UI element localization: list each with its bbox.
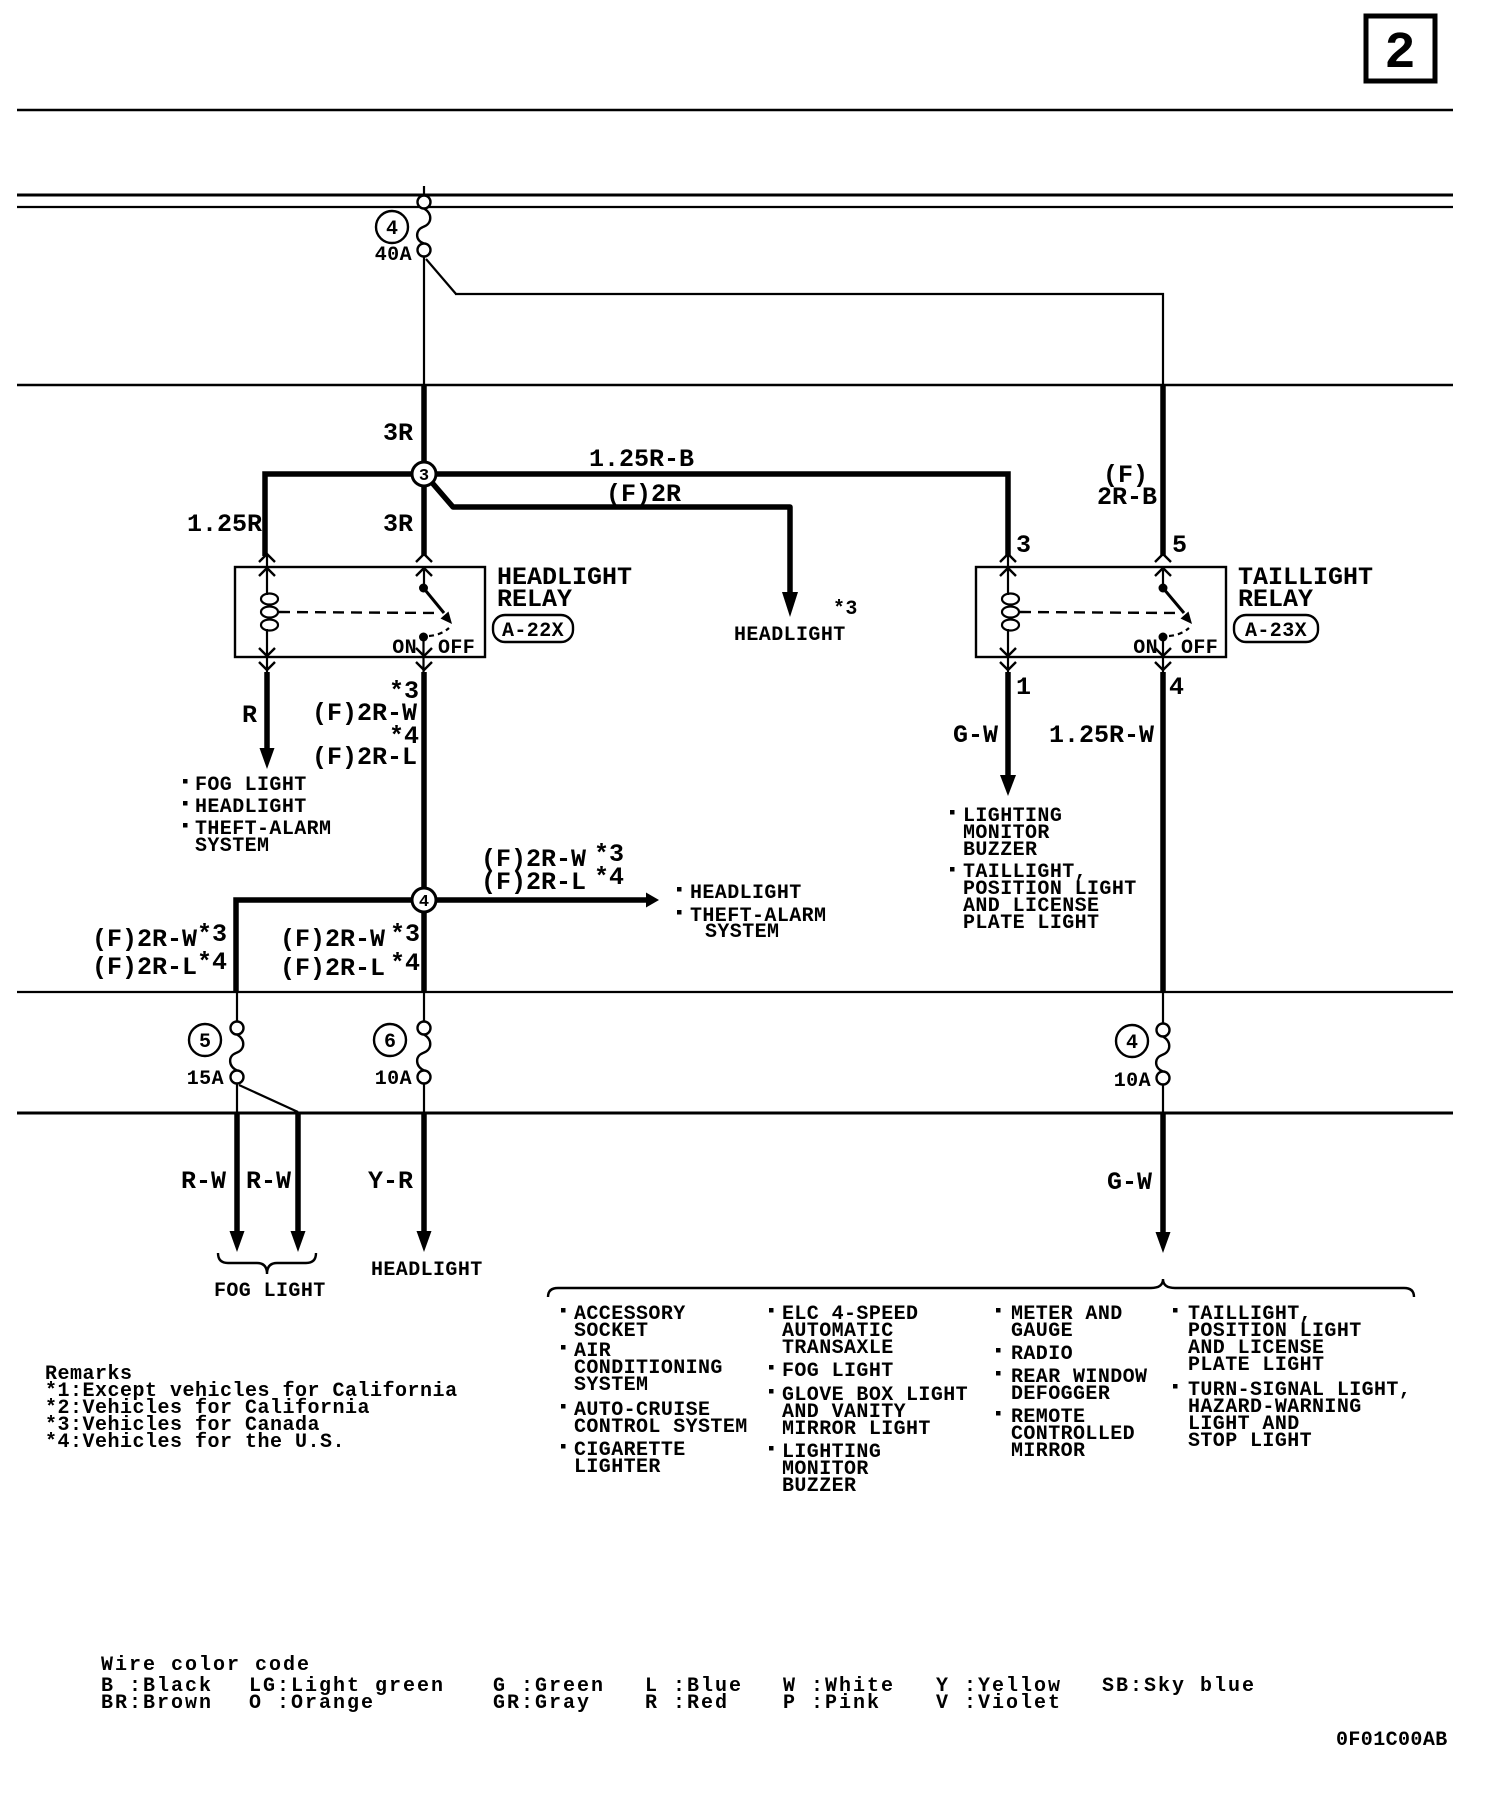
svg-text:OFF: OFF bbox=[438, 637, 475, 660]
svg-text:(F)2R-W: (F)2R-W bbox=[280, 925, 385, 954]
svg-text:HEADLIGHT: HEADLIGHT bbox=[734, 624, 846, 647]
label (F)2R-L *4 bbox=[312, 722, 419, 772]
fog light brace bbox=[218, 1253, 316, 1274]
junction 4 bbox=[412, 888, 436, 912]
svg-text:*3: *3 bbox=[833, 598, 858, 621]
svg-text:PLATE LIGHT: PLATE LIGHT bbox=[1188, 1354, 1324, 1377]
svg-text:(F)2R-W: (F)2R-W bbox=[92, 925, 197, 954]
svg-text:STOP LIGHT: STOP LIGHT bbox=[1188, 1430, 1312, 1453]
svg-text:BR:Brown: BR:Brown bbox=[101, 1692, 213, 1715]
svg-text:LIGHTER: LIGHTER bbox=[574, 1456, 661, 1479]
taillight relay switch pin chevrons bottom bbox=[1155, 648, 1171, 670]
svg-text:2: 2 bbox=[1384, 24, 1415, 83]
wire stub above bus bbox=[423, 186, 425, 196]
wire (F)2R-B bbox=[1160, 385, 1166, 556]
headlight relay switch bbox=[419, 570, 452, 676]
svg-text:1.25R-W: 1.25R-W bbox=[1049, 721, 1154, 750]
wire horizontal right branch bbox=[455, 293, 1164, 295]
big brace bbox=[548, 1279, 1414, 1297]
svg-text:(F)2R-L: (F)2R-L bbox=[280, 954, 385, 983]
headlight relay coil pin chevrons bottom bbox=[259, 648, 275, 670]
svg-text:SYSTEM: SYSTEM bbox=[195, 835, 269, 858]
svg-text:1.25R: 1.25R bbox=[187, 510, 262, 539]
remarks block bbox=[45, 1363, 458, 1454]
bus line mid bbox=[17, 384, 1453, 386]
svg-text:*4:Vehicles for the U.S.: *4:Vehicles for the U.S. bbox=[45, 1431, 345, 1454]
svg-text:40A: 40A bbox=[375, 244, 412, 267]
load list column 3 bbox=[996, 1303, 1147, 1463]
svg-text:10A: 10A bbox=[375, 1068, 412, 1091]
svg-text:R-W: R-W bbox=[181, 1167, 226, 1196]
svg-text:G-W: G-W bbox=[953, 721, 998, 750]
wire (F)2R-W/L down to junction 4 bbox=[421, 672, 427, 889]
svg-text:3R: 3R bbox=[383, 510, 413, 539]
svg-text:5: 5 bbox=[1172, 531, 1187, 560]
svg-text:BUZZER: BUZZER bbox=[782, 1475, 856, 1498]
svg-text:MIRROR LIGHT: MIRROR LIGHT bbox=[782, 1418, 931, 1441]
taillight relay coil pin chevrons top bbox=[1000, 554, 1016, 576]
svg-text:SB:Sky blue: SB:Sky blue bbox=[1102, 1675, 1256, 1698]
wire from fuse down bbox=[423, 257, 425, 385]
label (F)2R-L*4 left bbox=[92, 948, 227, 982]
fuse F4 40A bbox=[375, 196, 431, 268]
svg-text:R-W: R-W bbox=[246, 1167, 291, 1196]
svg-text:*3: *3 bbox=[390, 920, 420, 949]
taillight relay dashed coil-armature link bbox=[1020, 612, 1178, 613]
svg-text:3: 3 bbox=[419, 467, 429, 486]
svg-text:V :Violet: V :Violet bbox=[936, 1692, 1062, 1715]
headlight relay dashed coil-armature link bbox=[279, 612, 438, 613]
svg-text:*3: *3 bbox=[389, 677, 419, 706]
svg-text:2R-B: 2R-B bbox=[1097, 483, 1157, 512]
wire G-W arrow bottom bbox=[1156, 1113, 1171, 1253]
svg-text:HEADLIGHT: HEADLIGHT bbox=[195, 796, 307, 819]
svg-text:RELAY: RELAY bbox=[497, 585, 572, 614]
svg-text:P :Pink: P :Pink bbox=[783, 1692, 881, 1715]
headlight relay coil pin chevrons top bbox=[259, 554, 275, 576]
svg-text:*3: *3 bbox=[197, 920, 227, 949]
label (F)2R-W*3 center bbox=[280, 920, 420, 954]
svg-text:SYSTEM: SYSTEM bbox=[574, 1374, 648, 1397]
svg-text:A-22X: A-22X bbox=[502, 620, 564, 643]
svg-text:(F)2R-L: (F)2R-L bbox=[481, 868, 586, 897]
svg-text:RADIO: RADIO bbox=[1011, 1343, 1073, 1366]
wire 3R bbox=[421, 385, 427, 464]
svg-text:Y-R: Y-R bbox=[368, 1167, 413, 1196]
svg-text:4: 4 bbox=[386, 218, 398, 241]
wire 1.25R-B bbox=[435, 474, 1008, 556]
svg-text:PLATE LIGHT: PLATE LIGHT bbox=[963, 912, 1099, 935]
wire 1.25R bbox=[265, 474, 413, 556]
page number box 2 bbox=[1366, 16, 1435, 83]
svg-text:DEFOGGER: DEFOGGER bbox=[1011, 1383, 1110, 1406]
load list column 1 bbox=[561, 1303, 748, 1479]
headlight / theft-alarm list right bbox=[677, 882, 826, 944]
svg-text:1.25R-B: 1.25R-B bbox=[589, 445, 694, 474]
bus line fuse-row bottom bbox=[17, 1112, 1453, 1115]
svg-text:4: 4 bbox=[1169, 673, 1184, 702]
lighting monitor buzzer / taillight list bbox=[950, 805, 1137, 935]
svg-text:15A: 15A bbox=[187, 1068, 224, 1091]
wire Y-R arrow bbox=[417, 1113, 432, 1252]
taillight relay coil bbox=[1002, 556, 1019, 676]
svg-text:MIRROR: MIRROR bbox=[1011, 1440, 1085, 1463]
svg-text:1: 1 bbox=[1016, 673, 1031, 702]
taillight relay box bbox=[976, 567, 1226, 657]
taillight relay switch bbox=[1159, 570, 1193, 676]
fog light / headlight / theft-alarm list bbox=[183, 774, 331, 858]
svg-text:(F)2R-L: (F)2R-L bbox=[92, 953, 197, 982]
svg-text:0F01C00AB: 0F01C00AB bbox=[1336, 1729, 1448, 1752]
svg-text:G-W: G-W bbox=[1107, 1168, 1152, 1197]
svg-text:GR:Gray: GR:Gray bbox=[493, 1692, 591, 1715]
headlight relay box bbox=[235, 567, 485, 657]
taillight relay switch pin chevrons top bbox=[1155, 554, 1171, 576]
fuse F5 15A bbox=[187, 992, 298, 1113]
svg-text:BUZZER: BUZZER bbox=[963, 839, 1037, 862]
svg-text:FOG LIGHT: FOG LIGHT bbox=[195, 774, 307, 797]
svg-text:FOG LIGHT: FOG LIGHT bbox=[214, 1280, 326, 1303]
wire R-W arrow 2 bbox=[291, 1113, 306, 1252]
svg-text:R: R bbox=[242, 701, 257, 730]
wire R-W arrow 1 bbox=[230, 1113, 245, 1252]
svg-text:CONTROL SYSTEM: CONTROL SYSTEM bbox=[574, 1416, 748, 1439]
junction 4 down wire bbox=[421, 911, 427, 992]
wire color code bbox=[101, 1654, 1256, 1715]
load list column 4 bbox=[1173, 1303, 1411, 1453]
svg-text:3R: 3R bbox=[383, 419, 413, 448]
svg-text:6: 6 bbox=[384, 1031, 396, 1054]
svg-text:GAUGE: GAUGE bbox=[1011, 1320, 1073, 1343]
wire diagonal to right branch bbox=[426, 259, 456, 294]
svg-text:TRANSAXLE: TRANSAXLE bbox=[782, 1337, 894, 1360]
wire 1.25R-W pin 4 down bbox=[1160, 672, 1166, 992]
svg-text:HEADLIGHT: HEADLIGHT bbox=[690, 882, 802, 905]
wire 3R down from junction bbox=[421, 485, 427, 556]
svg-text:SYSTEM: SYSTEM bbox=[705, 921, 779, 944]
bus line fuse-row top bbox=[17, 991, 1453, 993]
svg-text:ON: ON bbox=[1133, 637, 1158, 660]
bus line top bbox=[17, 109, 1453, 111]
headlight relay connector badge A-22X bbox=[493, 615, 573, 643]
label (F)2R-W *3 bbox=[312, 677, 419, 728]
svg-text:ON: ON bbox=[392, 637, 417, 660]
bus line double upper bbox=[17, 194, 1453, 197]
svg-text:R :Red: R :Red bbox=[645, 1692, 729, 1715]
svg-text:O :Orange: O :Orange bbox=[249, 1692, 375, 1715]
svg-text:5: 5 bbox=[199, 1031, 211, 1054]
fuse F4 10A right bbox=[1114, 992, 1170, 1113]
svg-text:FOG LIGHT: FOG LIGHT bbox=[782, 1360, 894, 1383]
wire right branch down bbox=[1162, 293, 1164, 385]
svg-text:*4: *4 bbox=[594, 863, 624, 892]
svg-text:A-23X: A-23X bbox=[1245, 620, 1307, 643]
svg-text:4: 4 bbox=[1126, 1032, 1138, 1055]
label (F)2R-L*4 center bbox=[280, 949, 420, 983]
svg-text:(F)2R: (F)2R bbox=[606, 480, 681, 509]
svg-text:HEADLIGHT: HEADLIGHT bbox=[371, 1259, 483, 1282]
label (F)2R-W*3 left bbox=[92, 920, 227, 954]
svg-text:RELAY: RELAY bbox=[1238, 585, 1313, 614]
fuse F6 10A bbox=[374, 992, 431, 1113]
svg-text:10A: 10A bbox=[1114, 1070, 1151, 1093]
bus line double lower bbox=[17, 206, 1453, 208]
svg-text:OFF: OFF bbox=[1181, 637, 1218, 660]
taillight relay connector badge A-23X bbox=[1234, 615, 1318, 643]
headlight relay coil bbox=[261, 556, 278, 676]
headlight relay switch pin chevrons top bbox=[416, 554, 432, 576]
svg-text:*4: *4 bbox=[390, 949, 420, 978]
junction 4 right arrow bbox=[435, 893, 659, 908]
taillight relay coil pin chevrons bottom bbox=[1000, 648, 1016, 670]
junction 3 bbox=[412, 462, 436, 486]
load list column 2 bbox=[769, 1303, 968, 1498]
wire R arrow bbox=[260, 672, 275, 769]
svg-text:*4: *4 bbox=[389, 722, 419, 751]
svg-text:*4: *4 bbox=[197, 948, 227, 977]
svg-text:Wire color code: Wire color code bbox=[101, 1654, 311, 1677]
wire (F)2R branch bbox=[428, 478, 798, 617]
svg-text:4: 4 bbox=[419, 893, 429, 912]
svg-text:3: 3 bbox=[1016, 531, 1031, 560]
headlight relay switch pin chevrons bottom bbox=[416, 648, 432, 670]
wire G-W arrow pin 1 bbox=[1000, 672, 1016, 796]
junction 4 left wire bbox=[236, 900, 413, 992]
